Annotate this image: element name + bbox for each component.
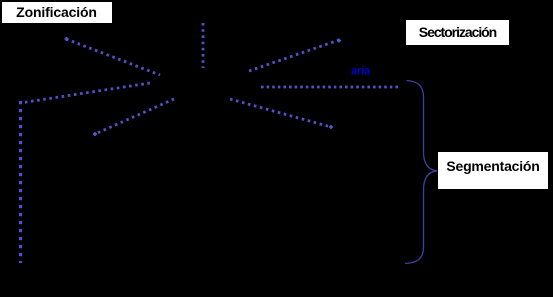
wire ray up-right (dotted) [249, 40, 339, 71]
box Sectorizacion [406, 20, 509, 45]
wire ray down-right (dotted) [230, 99, 331, 127]
wire ray down-left (dotted) [95, 99, 174, 134]
wire ray left-down to vertical (dotted) [20, 83, 150, 103]
arrowhead up-right end [337, 39, 341, 43]
wire ray up-left (dotted) [66, 39, 160, 75]
arrowhead down-right end [329, 125, 333, 129]
wire ray right horizontal (dotted) [261, 86, 401, 89]
box Segmentacion [438, 152, 548, 189]
svg-text:aria: aria [351, 66, 371, 78]
svg-text:Sectorización: Sectorización [419, 24, 497, 40]
wire vertical left (square dotted) [19, 101, 22, 263]
arrowhead up-left end [65, 37, 69, 41]
brace right (curly bracket) [405, 81, 437, 264]
box Zonificacion [2, 2, 112, 23]
svg-text:Zonificación: Zonificación [16, 4, 97, 20]
arrowhead down-left end [93, 132, 97, 136]
wire ray up vertical (dotted) [202, 23, 205, 68]
svg-text:Segmentación: Segmentación [446, 158, 539, 174]
